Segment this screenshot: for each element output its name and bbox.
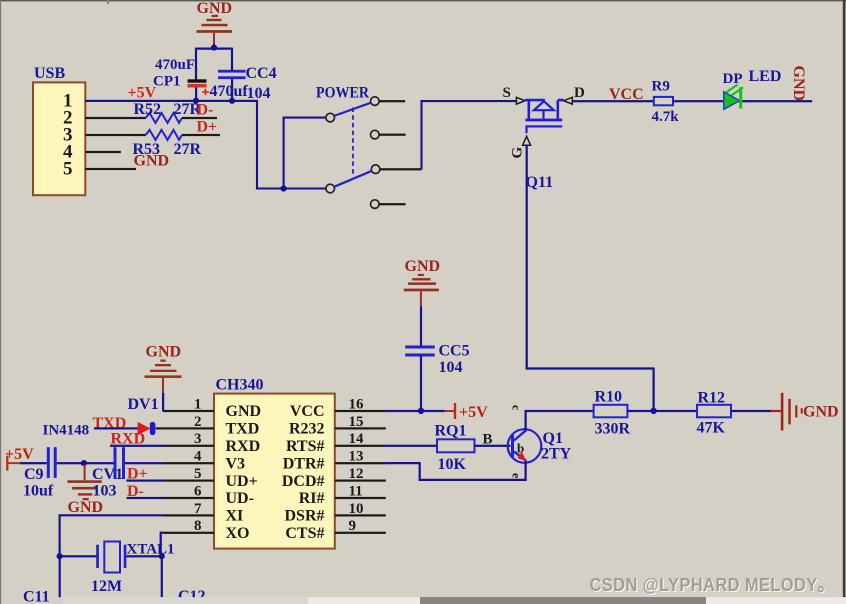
svg-text:XTAL1: XTAL1 (127, 542, 175, 558)
wire crystal to node right (126, 555, 161, 557)
svg-text:C11: C11 (23, 589, 50, 604)
svg-text:DV1: DV1 (128, 396, 159, 413)
pin 7 stub (163, 514, 214, 516)
svg-text:4.7k: 4.7k (652, 109, 680, 125)
resistor RQ1 (437, 439, 475, 452)
pin 15 stub (335, 427, 386, 429)
svg-text:10K: 10K (438, 456, 467, 473)
wire Q11 gate to node (526, 369, 654, 411)
svg-text:CTS#: CTS# (285, 525, 324, 542)
wire R12 to GND (731, 410, 771, 412)
pin 8 stub (163, 532, 214, 534)
wire XI (pin7) (60, 515, 163, 556)
wire emitter down (525, 461, 527, 481)
svg-text:4: 4 (194, 449, 202, 465)
switch pole (upper left) (326, 113, 335, 122)
svg-text:UD-: UD- (226, 490, 254, 507)
wire +5V rail drop to switch (257, 101, 326, 189)
svg-text:DP: DP (723, 71, 743, 87)
svg-text:2TY: 2TY (541, 446, 572, 463)
capacitor CC5 (405, 346, 435, 357)
wire contact4 stub (379, 203, 406, 205)
svg-text:R10: R10 (595, 389, 623, 406)
svg-text:470uf: 470uf (210, 83, 249, 100)
transistor Q1 (508, 429, 542, 463)
capacitor C9 (47, 447, 57, 478)
op-amp U1 CH340 body (214, 394, 335, 549)
switch pole (lower left) (326, 184, 335, 193)
svg-text:CV1: CV1 (92, 466, 123, 483)
svg-text:XI: XI (226, 508, 244, 525)
wire contact1 stub (379, 100, 405, 102)
node (junction at top GND) (211, 45, 217, 51)
wire +5V rail from USB pin1 (85, 100, 258, 102)
svg-text:14: 14 (349, 431, 365, 447)
svg-text:R9: R9 (652, 79, 670, 95)
svg-text:103: 103 (93, 483, 117, 500)
wire C9 to node (57, 462, 84, 464)
LED DP (diode) (724, 85, 743, 110)
node CP1/rail (193, 98, 199, 104)
wire D- net (182, 117, 217, 119)
pin 2 stub (156, 427, 214, 429)
svg-text:104: 104 (439, 359, 463, 376)
capacitor CV1 (114, 447, 126, 479)
svg-text:3: 3 (194, 431, 202, 447)
switch gang dashed link (352, 108, 354, 177)
svg-text:GND: GND (803, 404, 839, 421)
svg-text:10uf: 10uf (23, 483, 54, 500)
svg-text:CC4: CC4 (246, 65, 277, 82)
wire gate down (526, 145, 528, 368)
transistor Q11 (P-MOSFET) (525, 100, 564, 133)
switch blade upper (334, 103, 371, 116)
wire D+ net (182, 134, 220, 136)
svg-text:XO: XO (226, 525, 250, 542)
svg-text:330R: 330R (595, 421, 631, 438)
svg-text:b: b (517, 441, 524, 456)
svg-text:GND: GND (405, 258, 441, 275)
pin arrow G (523, 136, 531, 145)
wire D to R9 (572, 100, 654, 102)
pin names left column (226, 403, 262, 542)
wire +5V to C9 (20, 462, 47, 464)
svg-text:IN4148: IN4148 (43, 423, 90, 439)
wire node to CV1 (84, 462, 114, 464)
svg-text:LED: LED (749, 68, 782, 85)
svg-text:+5V: +5V (459, 404, 488, 421)
svg-text:27R: 27R (174, 141, 202, 158)
svg-text:47K: 47K (697, 420, 726, 437)
svg-text:RXD: RXD (226, 438, 261, 455)
wire D+ to pin5 (127, 480, 164, 482)
pin 12 stub (335, 480, 386, 482)
svg-text:5: 5 (194, 466, 202, 482)
svg-text:DSR#: DSR# (284, 508, 324, 525)
node switch feed (281, 185, 287, 191)
bottom scrollbar thumb (420, 597, 706, 604)
svg-text:S: S (503, 85, 511, 101)
pin arrow S (516, 97, 525, 104)
svg-text:1: 1 (194, 396, 202, 412)
wire node to crystal (60, 555, 97, 557)
left window edge (0, 0, 1, 604)
wire CC5 to +5V node (420, 357, 422, 412)
pin 13 stub (335, 462, 386, 464)
pin 4 stub (163, 462, 214, 464)
svg-text:+5V: +5V (128, 85, 157, 102)
svg-text:11: 11 (349, 483, 363, 499)
node CC4/rail (229, 98, 235, 104)
svg-text:Q11: Q11 (526, 174, 554, 191)
capacitor CC4 (218, 70, 246, 79)
pin arrow D (564, 97, 573, 104)
wire R10 to node (627, 410, 653, 412)
bottom scrollbar track (63, 597, 846, 604)
diode DV1 IN4148 (138, 422, 156, 435)
svg-text:CP1: CP1 (153, 74, 181, 90)
top window edge (0, 0, 846, 1)
resistor R52 (146, 113, 182, 123)
ground (right, rotated) (771, 393, 839, 431)
connector USB (33, 65, 85, 195)
wire to C12 (161, 556, 163, 597)
resistor R10 (594, 405, 628, 418)
svg-text:V3: V3 (226, 455, 246, 472)
wire pin13 to emitter (386, 463, 527, 480)
svg-text:12M: 12M (91, 578, 122, 595)
wire pin16 to +5V node (386, 410, 445, 412)
node +5V/pin16 (418, 408, 424, 414)
switch contact 3 (371, 165, 380, 174)
wire D- to pin6 (127, 497, 164, 499)
svg-text:G: G (510, 147, 526, 159)
right sheet border (843, 0, 846, 604)
svg-text:16: 16 (349, 396, 365, 412)
svg-text:7: 7 (194, 501, 202, 517)
wire GND stem to node (213, 44, 215, 48)
svg-text:D: D (574, 85, 585, 101)
svg-text:R52: R52 (134, 101, 162, 118)
power +5V bar (left) (6, 456, 8, 471)
wire GND to CC5 (420, 306, 422, 345)
svg-text:R232: R232 (289, 421, 325, 438)
svg-text:6: 6 (194, 483, 202, 499)
wire USB pin4 (85, 151, 121, 153)
wire RXD to pin3 (110, 445, 163, 447)
svg-text:10: 10 (349, 501, 364, 517)
svg-text:5: 5 (63, 159, 73, 180)
pin names right column (282, 403, 325, 542)
wire USB pin5 (85, 168, 136, 170)
wire CV1 to pin4 (125, 462, 163, 464)
capacitor CP1 (188, 79, 209, 95)
pin 9 stub (335, 532, 386, 534)
svg-text:15: 15 (349, 414, 364, 430)
pin 5 stub (163, 480, 214, 482)
svg-text:GND: GND (197, 0, 233, 17)
pin 3 stub (163, 445, 214, 447)
ground (above pin1) (145, 344, 182, 393)
svg-text:GND: GND (226, 403, 262, 420)
svg-text:POWER: POWER (316, 85, 369, 102)
svg-text:RQ1: RQ1 (435, 423, 467, 440)
switch contact 1 (371, 97, 380, 106)
svg-text:2: 2 (194, 414, 202, 430)
svg-text:Q1: Q1 (543, 430, 563, 447)
wire RQ1 to base (475, 445, 511, 447)
svg-text:8: 8 (194, 518, 202, 534)
wire CC4 to +5V rail (231, 79, 233, 101)
wire XO (pin8) (161, 533, 163, 557)
wire USB pin2 (85, 117, 146, 119)
wire contact3 to MOSFET S (422, 101, 517, 169)
wire node to R12 (654, 410, 697, 412)
svg-text:GND: GND (134, 153, 170, 170)
svg-text:CH340: CH340 (216, 377, 264, 394)
power +5V bar (pin16) (445, 410, 455, 412)
wire R9 to LED (673, 100, 812, 102)
wire contact2 stub (379, 134, 406, 136)
pin 11 stub (335, 497, 386, 499)
svg-text:UD+: UD+ (226, 473, 258, 490)
svg-text:D+: D+ (197, 119, 218, 136)
pin 14 stub (335, 445, 386, 447)
svg-text:CSDN @LYPHARD MELODY。: CSDN @LYPHARD MELODY。 (590, 574, 835, 595)
wire node to CC4 branch (214, 48, 232, 70)
pin 1 stub (163, 410, 214, 412)
svg-text:CC5: CC5 (439, 343, 470, 360)
switch contact 4 (371, 200, 380, 209)
wire collector up (525, 411, 527, 430)
ground (below node) (67, 463, 103, 516)
pin 6 stub (163, 497, 214, 499)
switch blade lower (334, 171, 372, 187)
wire node to CP1 branch (196, 48, 214, 80)
svg-text:USB: USB (34, 65, 65, 82)
svg-text:C9: C9 (24, 466, 44, 483)
switch contact 2 (371, 130, 380, 139)
svg-text:GND: GND (790, 66, 807, 102)
svg-text:c: c (510, 405, 524, 411)
pin 10 stub (335, 514, 386, 516)
svg-text:GND: GND (146, 344, 182, 361)
node gate/R10/R12 (650, 408, 656, 414)
wire contact3 stub (380, 168, 422, 170)
pin numbers left (194, 396, 202, 534)
svg-text:9: 9 (349, 518, 357, 534)
svg-text:DTR#: DTR# (283, 455, 325, 472)
resistor R12 (697, 405, 731, 418)
ground (above CC5) (404, 258, 440, 306)
resistor R53 (146, 130, 182, 140)
svg-text:e: e (510, 473, 524, 479)
ground (top) (197, 0, 233, 44)
wire TXD to diode (94, 427, 138, 429)
svg-text:VCC: VCC (290, 403, 325, 420)
svg-text:12: 12 (349, 466, 364, 482)
wire to C11 (59, 556, 61, 597)
svg-text:GND: GND (68, 499, 104, 516)
pin 16 stub (335, 410, 386, 412)
svg-text:+5V: +5V (5, 446, 34, 463)
wire GND to pin1 (162, 393, 164, 412)
wire pin14 to RQ1 (386, 445, 437, 447)
pin numbers right (349, 396, 365, 534)
svg-text:RI#: RI# (299, 490, 325, 507)
svg-text:RTS#: RTS# (286, 438, 325, 455)
node C9/CV1 (81, 460, 87, 466)
svg-text:DCD#: DCD# (282, 473, 325, 490)
node crystal left (57, 553, 63, 559)
svg-text:D-: D- (197, 102, 214, 119)
node crystal right (159, 553, 165, 559)
resistor R9 (654, 97, 673, 105)
svg-text:R12: R12 (698, 390, 726, 407)
wire collector to R10 (525, 410, 594, 412)
svg-text:104: 104 (247, 85, 271, 102)
svg-text:470uF: 470uF (155, 57, 195, 73)
svg-text:13: 13 (349, 449, 364, 465)
wire CP1 to +5V rail (195, 88, 197, 102)
svg-text:TXD: TXD (226, 421, 260, 438)
wire USB pin3 (85, 134, 146, 136)
svg-text:B: B (483, 432, 493, 448)
crystal XTAL1 (96, 542, 126, 573)
